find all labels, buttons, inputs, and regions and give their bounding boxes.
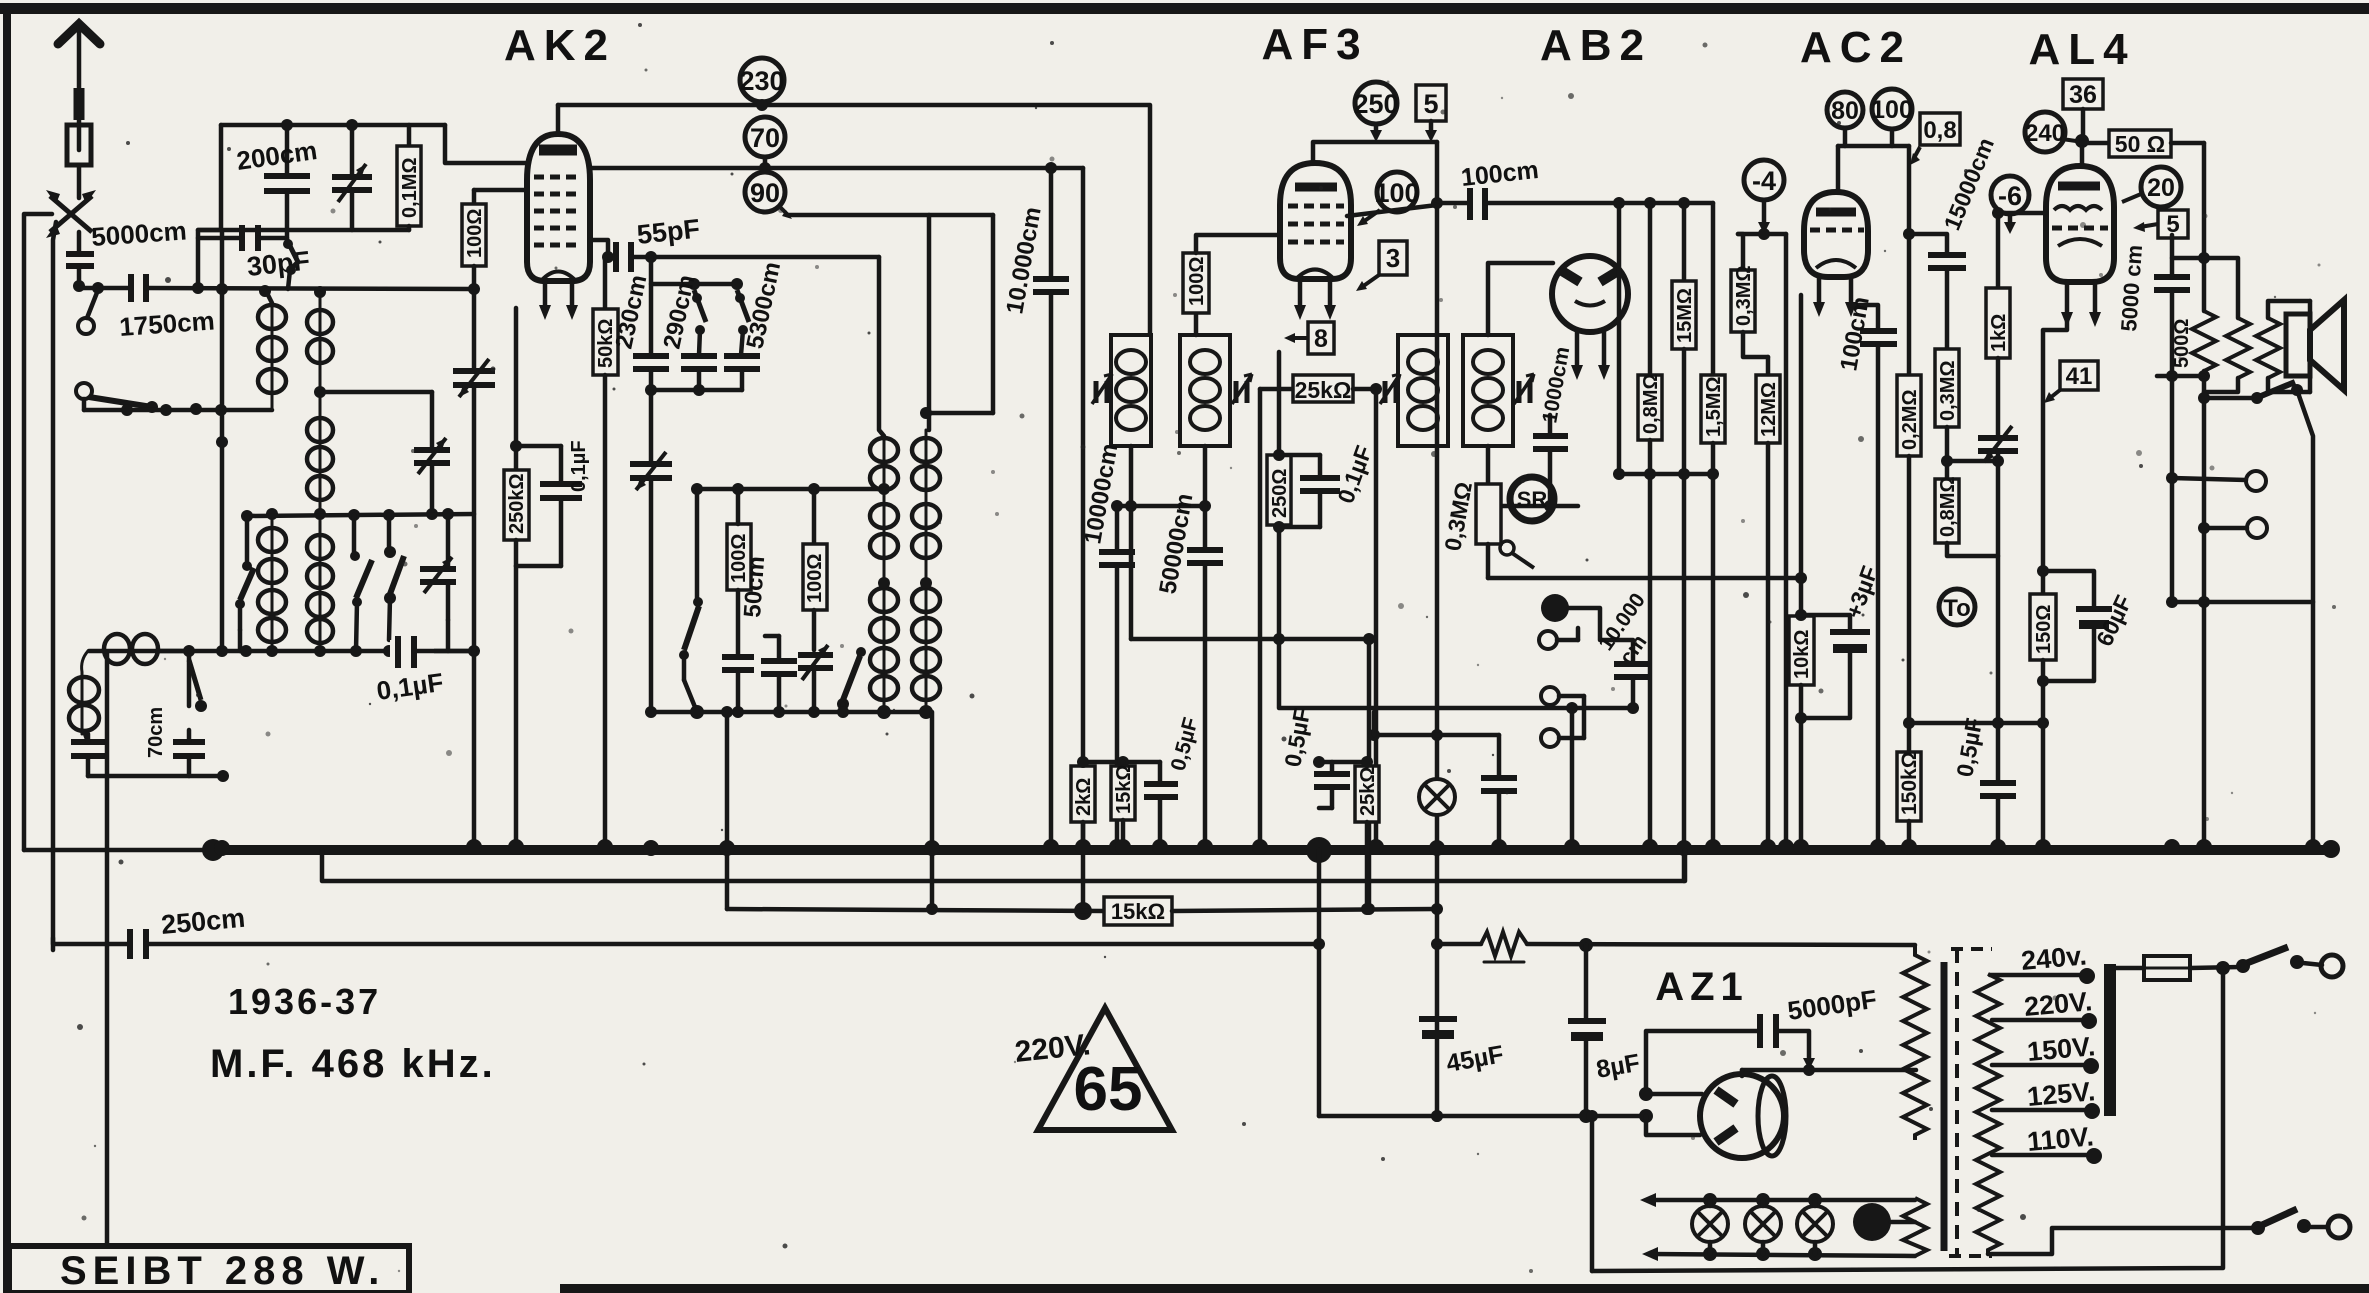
resistor 0,3MΩ bias: [1731, 234, 1768, 357]
svg-text:AZ1: AZ1: [1655, 965, 1749, 1009]
capacitor 60µF cathode: [2043, 571, 2112, 681]
pilot lamp 3: [1797, 1200, 1833, 1254]
node L2 mid: [314, 386, 326, 398]
annotation circle SR: [1510, 477, 1554, 521]
resistor 150kΩ: [1897, 752, 1921, 849]
wire screen rail corner down: [1081, 168, 1086, 762]
wire IFT2 secondary to diode: [1488, 263, 1553, 335]
svg-text:1kΩ: 1kΩ: [1988, 314, 2010, 352]
transformer core: [1944, 949, 1992, 1256]
osc mid rail y489: [697, 487, 884, 492]
node 10000cm takeoff: [1045, 162, 1057, 174]
capacitor 1750cm (series): [131, 274, 146, 302]
wire y762 link: [1083, 760, 1160, 765]
wire band section y514: [247, 514, 474, 516]
resistor 100Ω IF coupling: [1183, 235, 1280, 335]
mains switch bottom: [2251, 1209, 2350, 1238]
tube AC2: [1804, 192, 1868, 317]
svg-text:10kΩ: 10kΩ: [1791, 630, 1813, 679]
svg-text:15kΩ: 15kΩ: [1113, 765, 1135, 814]
frame antenna (loop) bottom left: [69, 634, 189, 742]
node AL4 anode junction: [2075, 134, 2089, 148]
resistor 50Ω: [2109, 130, 2204, 157]
svg-text:110V.: 110V.: [2026, 1121, 2095, 1157]
svg-text:125V.: 125V.: [2026, 1076, 2096, 1112]
wire AF3 return y708: [1279, 639, 1633, 708]
wire to series cap: [79, 286, 130, 291]
wire 2k line to AVC junction: [1081, 822, 1086, 911]
capacitor 0,5µF det: [1144, 762, 1178, 849]
svg-text:250Ω: 250Ω: [1269, 469, 1291, 518]
resistor 25kΩ avc: [1355, 756, 1379, 915]
capacitor 230cm: [633, 284, 669, 390]
svg-text:36: 36: [2069, 81, 2097, 109]
wire long vertical to lower left: [105, 653, 110, 1243]
wire AB2 y474: [1619, 472, 1713, 477]
resistor 500Ω zigzag: [2192, 311, 2216, 849]
annotation box 41: [2044, 361, 2098, 403]
primary taps: [1990, 968, 2102, 1164]
wire osc rail to AVC line: [725, 712, 730, 909]
wire cap to tuning cell: [146, 288, 474, 289]
svg-text:25kΩ: 25kΩ: [1357, 767, 1379, 816]
resistor 50kΩ osc grid leak: [593, 257, 618, 849]
wire AC2 grid from AVC: [1799, 295, 1804, 578]
padder block top wire: [651, 257, 737, 284]
annotation box 5: [1416, 85, 1446, 142]
frame antenna capacitor right: [173, 645, 205, 776]
wire AF3 plate to node: [1347, 205, 1437, 216]
capacitor 10000cm af: [1614, 664, 1652, 714]
pilot lamp rail bottom: [1642, 1247, 1915, 1261]
output transformer primary: [2204, 258, 2250, 392]
wire output stage vertical: [2202, 143, 2207, 311]
svg-text:-4: -4: [1752, 166, 1776, 196]
capacitor 250cm (series): [130, 929, 1319, 959]
wire antenna to switch: [77, 165, 82, 198]
wire det bottom rail y639: [1131, 637, 1369, 642]
capacitor 55pF (series): [608, 242, 879, 272]
wire AK2 cathode: [514, 308, 519, 446]
svg-text:50cm: 50cm: [739, 555, 770, 618]
wire AVC y578: [1488, 576, 1801, 581]
wire primary bottom to switch: [1988, 1228, 2253, 1254]
antenna coil L1: [258, 291, 286, 410]
capacitor 5000cm tone: [2154, 235, 2204, 602]
padder switch arm 2: [735, 290, 749, 355]
wire mains neutral vertical: [1592, 968, 2223, 1271]
annotation box 36: [2063, 79, 2103, 138]
svg-text:100Ω: 100Ω: [804, 554, 826, 603]
svg-text:240: 240: [2025, 120, 2065, 147]
svg-text:70cm: 70cm: [145, 707, 167, 758]
resistor 1kΩ: [1986, 213, 2010, 437]
wire det return to bus: [1570, 708, 1575, 849]
capacitor 5000pF (series): [1646, 1014, 1815, 1094]
tube AL4: [2046, 166, 2114, 327]
capacitor 0,1µF cathode: [510, 440, 582, 566]
anode load vertical: [1907, 146, 1912, 375]
capacitor 10000cm det a: [1099, 506, 1135, 849]
mains transformer HT secondary: [1903, 945, 1927, 1140]
wire AL4 grid y213: [1998, 211, 2046, 216]
osc bottom rail y712: [651, 710, 926, 715]
wire band section y392: [320, 390, 432, 395]
band switch arm c: [384, 515, 404, 640]
resistor 100Ω AK2 grid: [462, 190, 527, 370]
resistor 0,2MΩ: [1897, 375, 1921, 752]
wire plate rail y203: [1437, 201, 1469, 206]
svg-text:100Ω: 100Ω: [1186, 257, 1208, 306]
svg-text:AC2: AC2: [1800, 23, 1912, 72]
input cell bottom rail: [198, 228, 409, 233]
pickup terminal circles: [1539, 628, 1584, 747]
resistor 0,1MΩ: [397, 125, 421, 230]
wire filament leads: [1639, 1087, 1702, 1135]
wire lamp top y735: [1374, 733, 1499, 738]
resistor 150Ω: [2030, 594, 2056, 849]
padder fixed capacitor: [722, 657, 754, 712]
annotation box 8: [1284, 322, 1334, 354]
node B- main: [1306, 837, 1332, 863]
wire B- y1116: [1319, 1114, 1646, 1119]
capacitor 8µF: [1568, 945, 1606, 1116]
capacitor 50000cm det b: [1187, 506, 1223, 849]
wire grid link y461: [1947, 459, 1998, 464]
pickup jack black: [1541, 594, 1633, 663]
annotation circle 70: [745, 117, 785, 174]
wire antenna lead down left: [53, 222, 56, 950]
svg-text:70: 70: [750, 123, 780, 153]
padder capacitor b: [761, 636, 797, 712]
tube AF3: [1280, 163, 1351, 320]
svg-text:2kΩ: 2kΩ: [1073, 778, 1095, 816]
capacitor 0,1µF AF3 cathode: [1273, 449, 1340, 533]
pilot lamp 2: [1745, 1200, 1781, 1254]
annotation circle 230: [739, 58, 784, 111]
mains switch top: [2236, 947, 2343, 977]
svg-text:0,8MΩ: 0,8MΩ: [1937, 477, 1959, 538]
svg-text:To: To: [1943, 595, 1971, 622]
wire AK2 anode to top rail: [556, 105, 561, 134]
border frame left: [3, 4, 11, 1293]
wire anode rail y105: [558, 105, 1150, 335]
trimmer capacitor input cell: [332, 119, 372, 230]
svg-text:100: 100: [1871, 96, 1913, 124]
resistor 0,3MΩ AC2: [1935, 349, 1959, 479]
capacitor 1000cm det: [1533, 415, 1568, 506]
border frame bottom right: [560, 1284, 2369, 1293]
IF transformer 1 left winding: [1111, 335, 1151, 446]
wire bias corner to bus: [1784, 234, 1789, 849]
svg-text:15kΩ: 15kΩ: [1111, 899, 1165, 924]
annotation circle To: [1939, 589, 1975, 625]
wire coil bottom rail: [82, 399, 87, 410]
antenna tap switch arm: [76, 290, 158, 413]
osc trimmer c: [798, 645, 833, 712]
output transformer secondary: [2256, 301, 2310, 392]
pilot lamp 1: [1692, 1200, 1728, 1254]
wire 25k right down to bus: [1374, 389, 1379, 849]
capacitor 290cm: [681, 356, 717, 390]
wire IFT1 right bottom: [1203, 446, 1208, 506]
resistor 2kΩ: [1071, 762, 1095, 849]
fuse: [2110, 956, 2240, 980]
wire cell to AK2 grid: [445, 125, 527, 163]
svg-text:15MΩ: 15MΩ: [1674, 288, 1696, 343]
resistor 0,8MΩ: [1638, 203, 1662, 849]
svg-text:100: 100: [1374, 178, 1419, 208]
node antenna coil 1 top: [216, 283, 228, 295]
wire switch down: [77, 232, 82, 252]
wire oscillator-mixer bottom rail y651: [89, 649, 474, 654]
antenna symbol: [58, 24, 100, 150]
potentiometer 0,3MΩ volume: [1476, 446, 1534, 578]
antenna coupling coil (small rect): [67, 125, 91, 165]
svg-text:3: 3: [1386, 243, 1400, 273]
svg-text:-6: -6: [1998, 181, 2022, 211]
capacitor 0,5µF avc: [1313, 756, 1367, 808]
antenna/earth cross switch: [46, 190, 96, 238]
svg-text:250: 250: [1353, 89, 1398, 119]
trimmer capacitor band 1: [414, 392, 450, 520]
capacitor 5300cm: [724, 356, 760, 390]
wire left rail from switch: [24, 214, 52, 850]
svg-text:250kΩ: 250kΩ: [506, 473, 528, 534]
wire antenna earth y956: [53, 938, 129, 944]
dial lamp: [1419, 779, 1455, 815]
padder bottom wire: [651, 388, 742, 393]
annotation box 0,8: [1910, 113, 1960, 165]
band switch arm a: [235, 516, 254, 651]
svg-text:0,8: 0,8: [1923, 117, 1956, 144]
wire IFT1 left bottom: [1129, 446, 1134, 639]
bus junction dots: [214, 839, 2340, 858]
tuning gang capacitor 2 (osc): [630, 390, 672, 712]
capacitor 100cm AC2: [1851, 305, 1897, 849]
svg-text:0,3MΩ: 0,3MΩ: [1733, 266, 1755, 327]
capacitor 3µF cathode: [1795, 609, 1870, 724]
AB2 load verticals: [1617, 203, 1622, 474]
svg-text:AF3: AF3: [1261, 20, 1368, 69]
loudspeaker: [2286, 300, 2344, 390]
annotation circle 240: [2025, 112, 2076, 152]
border frame top: [0, 3, 2369, 14]
resistor 25kΩ AF3 grid: [1260, 375, 1376, 402]
resistor 15kΩ: [1111, 762, 1135, 849]
capacitor 0,1µF (series in y651): [390, 636, 474, 668]
trimmer capacitor band 2: [420, 508, 456, 651]
osc coil left: [870, 257, 898, 712]
osc switch arm c1: [679, 489, 703, 712]
svg-text:500Ω: 500Ω: [2171, 319, 2193, 368]
wire AK2 to 55pF: [590, 240, 608, 257]
svg-text:150Ω: 150Ω: [2033, 605, 2055, 654]
svg-text:220V.: 220V.: [2023, 986, 2093, 1022]
IF transformer 2 right winding: [1463, 335, 1513, 446]
svg-text:240v.: 240v.: [2020, 940, 2088, 976]
capacitor 10000cm screen bypass: [1033, 168, 1069, 849]
input tuned cell top rail: [221, 123, 445, 128]
tube AK2: [527, 134, 590, 320]
triangle mark 65: [1013, 1008, 1172, 1130]
svg-text:0,8MΩ: 0,8MΩ: [1640, 374, 1662, 435]
annotation circle 100 AC2: [1871, 89, 1913, 129]
annotation circle 20: [2122, 167, 2181, 207]
band switch arm b: [350, 515, 372, 651]
svg-text:0,2MΩ: 0,2MΩ: [1899, 390, 1921, 451]
wire speaker links: [2157, 374, 2204, 379]
svg-text:100Ω: 100Ω: [464, 209, 486, 258]
capacitor 30pF (series): [198, 225, 287, 251]
IFT1 left trimmer: [1092, 374, 1112, 404]
wire HT+ y944: [1437, 942, 1481, 947]
resistor 0,8MΩ AC2: [1935, 479, 1998, 556]
input cell left rail: [219, 125, 224, 230]
variable capacitor tone: [1978, 426, 2018, 723]
tube AZ1 rectifier: [1700, 1074, 1786, 1158]
svg-text:150V.: 150V.: [2026, 1031, 2096, 1067]
capacitor 100cm coupling: [1470, 188, 1713, 220]
annotation circle 80: [1827, 92, 1863, 128]
svg-text:230: 230: [739, 66, 784, 96]
wire x1374 stub: [1372, 712, 1377, 735]
svg-text:20: 20: [2147, 174, 2175, 202]
resistor 10kΩ: [1789, 578, 1814, 849]
svg-text:SR: SR: [1517, 487, 1548, 512]
svg-text:M.F. 468 kHz.: M.F. 468 kHz.: [210, 1042, 496, 1086]
switch arm on loop wire: [189, 660, 207, 712]
svg-text:SEIBT 288 W.: SEIBT 288 W.: [60, 1249, 385, 1293]
frame antenna capacitor left: [71, 734, 106, 776]
wire B- down: [1317, 850, 1322, 1116]
svg-text:0,3MΩ: 0,3MΩ: [1937, 361, 1959, 422]
capacitor 45µF: [1419, 1019, 1457, 1039]
capacitor lamp bypass: [1481, 735, 1517, 849]
annotation box 3: [1356, 241, 1407, 291]
tuning gang capacitor 1: [453, 359, 495, 849]
IFT2 left trimmer: [1380, 374, 1400, 404]
osc switch arm c2: [837, 647, 866, 712]
resistor 250Ω cathode: [1267, 352, 1291, 639]
speaker switch: [2198, 382, 2313, 849]
wire anode to 50ohm: [2082, 141, 2109, 146]
resistor 12MΩ: [1756, 357, 1780, 849]
wire output link y723: [1909, 721, 2043, 726]
filter choke (zigzag): [1481, 932, 1915, 962]
wire 25k left to bus: [1258, 389, 1263, 849]
annotation circle 250: [1353, 82, 1398, 142]
svg-text:1,5MΩ: 1,5MΩ: [1703, 377, 1725, 438]
IFT2 right trimmer: [1514, 374, 1534, 404]
svg-text:AL4: AL4: [2028, 25, 2135, 74]
wire screen rail y168: [590, 166, 1083, 171]
svg-text:50 Ω: 50 Ω: [2115, 131, 2165, 157]
wire cathode to bus: [514, 566, 519, 849]
wire oscillator anode rail y215: [788, 213, 993, 218]
pilot lamp rail top: [1640, 1193, 1915, 1207]
tap labels: [2020, 940, 2096, 1157]
tube AB2: [1552, 256, 1628, 380]
voltage selector bar: [2104, 964, 2116, 1116]
frame antenna bottom wire: [88, 774, 223, 779]
wire cell corner to antenna node: [198, 230, 221, 288]
svg-text:25kΩ: 25kΩ: [1295, 377, 1352, 403]
svg-text:12MΩ: 12MΩ: [1758, 382, 1780, 437]
annotation circle -4: [1744, 160, 1784, 234]
antenna coil L2 (long): [307, 292, 333, 651]
svg-text:41: 41: [2066, 363, 2093, 390]
resistor 250kΩ cathode: [504, 446, 529, 566]
resistor 1,5MΩ: [1701, 203, 1725, 849]
svg-text:0,1µF: 0,1µF: [568, 440, 590, 492]
svg-text:1936-37: 1936-37: [228, 981, 381, 1022]
dial lamp black: [1853, 1203, 1915, 1241]
wire x1369 heater return: [1367, 639, 1372, 909]
transformer tapped primary: [1976, 974, 2000, 1254]
svg-text:65: 65: [1074, 1055, 1143, 1124]
padder switch arm 1: [692, 290, 706, 355]
wire rectifier anode y1070: [1742, 1068, 1916, 1073]
annotation box 5 AL4: [2133, 210, 2188, 238]
capacitor 200cm: [264, 119, 310, 230]
antenna coil L3 lower: [258, 508, 286, 651]
wire AVC return y881: [322, 850, 1685, 881]
chassis bus thin lead-in: [24, 848, 213, 853]
wire bias y234: [1738, 232, 1786, 237]
resistor 15kΩ AVC: [1104, 897, 1437, 925]
svg-text:0,1MΩ: 0,1MΩ: [399, 158, 421, 219]
resistor 15MΩ: [1672, 203, 1696, 881]
title box SEIBT 288 W.: [9, 1246, 409, 1293]
band switch below cell: [283, 230, 298, 289]
svg-text:8: 8: [1314, 325, 1328, 353]
IF transformer 2 left winding: [1398, 335, 1448, 446]
transformer filament winding: [1903, 1198, 1927, 1256]
IFT1 right trimmer: [1232, 374, 1252, 404]
wire AVC line y909: [727, 909, 1104, 911]
main chassis bus: [211, 845, 2334, 855]
annotation circle 100 AF3: [1357, 172, 1420, 226]
detector bottom link y506: [1117, 504, 1205, 509]
annotation circle 90: [745, 172, 792, 219]
svg-text:AB2: AB2: [1540, 21, 1652, 70]
main B+ vertical: [1435, 142, 1440, 1116]
wire vertical x222: [220, 230, 225, 651]
capacitor 0,5µF output: [1980, 723, 2016, 849]
wire AF3 top y142: [1313, 142, 1437, 163]
osc coil right: [912, 430, 940, 712]
svg-text:5: 5: [1423, 89, 1438, 119]
IF transformer 1 right winding: [1180, 335, 1230, 446]
annotation circle -6: [1991, 176, 2029, 234]
resistor 100Ω osc b: [803, 489, 827, 650]
wire pot link y506: [1488, 504, 1578, 509]
wire AL4 cathode down: [2043, 315, 2067, 594]
capacitor 5000cm: [66, 254, 94, 292]
extra speaker jacks: [2166, 471, 2267, 538]
node grid input: [92, 282, 104, 294]
resistor 100Ω osc a: [727, 489, 751, 656]
wire AC2 top: [1843, 128, 1848, 146]
svg-text:150kΩ: 150kΩ: [1898, 751, 1921, 815]
wire osc coil top link: [926, 411, 993, 416]
svg-text:AK2: AK2: [504, 21, 616, 70]
svg-text:90: 90: [750, 178, 780, 208]
svg-text:80: 80: [1831, 97, 1859, 125]
capacitor 15000cm coupling: [1909, 234, 1966, 349]
